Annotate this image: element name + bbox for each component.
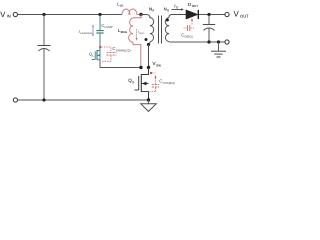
capacitor COSS(EQ) dashed (main FET) [150, 72, 175, 92]
svg-text:OUT: OUT [240, 13, 249, 18]
svg-text:P: P [152, 9, 154, 13]
node polarity dot primary [145, 38, 148, 41]
svg-text:OSS(EQ): OSS(EQ) [163, 81, 175, 85]
wire diode to output [199, 14, 225, 16]
wire secondary bottom rail [170, 41, 225, 43]
svg-text:LK: LK [120, 4, 124, 8]
capacitor COSS(EQ) dashed (lump model) [99, 46, 130, 61]
node junction primary bottom [147, 43, 150, 46]
current arrow IMAG dashed [136, 29, 145, 41]
node junction output cap bottom [207, 40, 210, 43]
svg-text:SW: SW [156, 63, 161, 67]
svg-text:LUMP: LUMP [105, 25, 113, 29]
ground earth symbol [211, 42, 226, 57]
transformer primary winding NP [141, 7, 154, 45]
wire primary bottom to switch node [148, 45, 150, 68]
capacitor CD dashed (diode) [181, 18, 194, 39]
current arrow IS [172, 4, 184, 11]
node junction clump branch [98, 13, 101, 16]
svg-text:V: V [234, 10, 240, 19]
svg-text:V: V [0, 10, 6, 19]
inductor LMAG (red) [118, 15, 141, 67]
transformer secondary winding NS [164, 7, 186, 42]
node polarity dot secondary [166, 19, 169, 22]
capacitor COUT [203, 15, 215, 42]
transformer core [159, 16, 162, 44]
node junction primary top [139, 13, 142, 16]
node VSW label [153, 61, 162, 67]
transistor QL (teal) [89, 50, 100, 60]
node junction VSW [147, 66, 150, 69]
node junction lmag switch node [139, 66, 142, 69]
node junction input cap bottom [42, 98, 45, 101]
svg-text:S: S [132, 80, 134, 84]
current arrow ILEAKAGE [79, 24, 94, 36]
diode DOUT [186, 2, 198, 19]
svg-text:MAG: MAG [139, 32, 144, 35]
svg-text:OUT: OUT [192, 4, 199, 8]
svg-text:MAG: MAG [121, 30, 128, 34]
svg-text:LEAKAGE: LEAKAGE [80, 32, 92, 35]
node junction output cap top [207, 13, 210, 16]
svg-text:D(EQ): D(EQ) [185, 35, 193, 39]
node junction input cap [42, 13, 45, 16]
node VOUT terminal [225, 10, 249, 19]
node terminal input return [13, 98, 17, 102]
wire bottom rail [18, 99, 149, 101]
node terminal output return [225, 40, 229, 44]
wire teal branch to switch node [100, 60, 140, 68]
ground symbol triangle [141, 100, 156, 111]
inductor LLK (leakage) [117, 2, 139, 15]
svg-text:S: S [167, 9, 169, 13]
wire top rail [18, 14, 122, 16]
capacitor CIN [38, 15, 51, 100]
svg-text:L: L [92, 54, 94, 58]
transistor Q main [128, 68, 148, 101]
node junction ground [147, 98, 150, 101]
node junction earth ground [217, 40, 220, 43]
svg-text:IN: IN [7, 14, 11, 19]
svg-text:S: S [176, 6, 178, 10]
capacitor CLUMP (teal branch) [96, 15, 112, 51]
svg-text:XFMR(EQ): XFMR(EQ) [116, 49, 131, 53]
node VIN terminal [0, 10, 17, 19]
svg-text:D: D [188, 2, 191, 7]
